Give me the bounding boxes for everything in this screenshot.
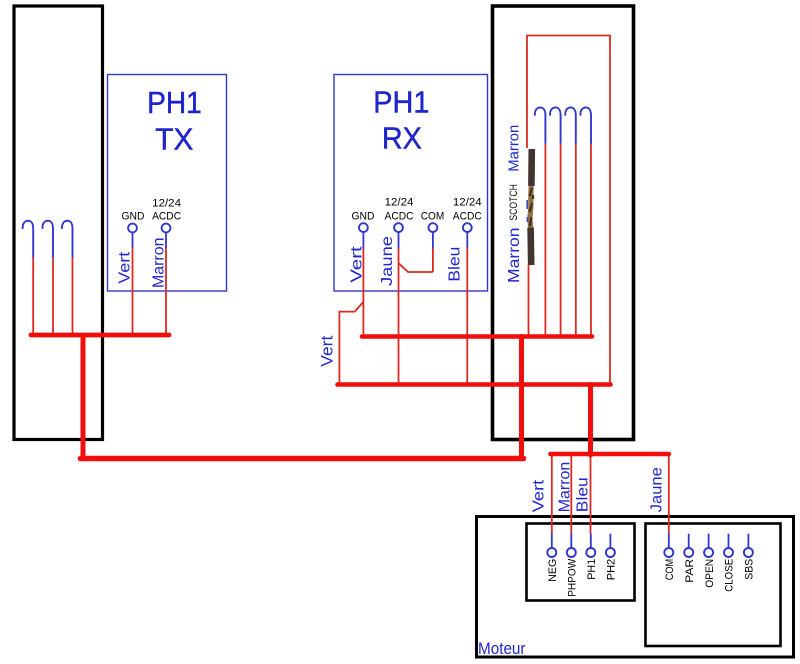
svg-text:Vert: Vert xyxy=(349,245,366,282)
wire Vert branch from RX GND xyxy=(339,302,363,383)
terminal circle RX GND xyxy=(359,223,368,232)
svg-text:OPEN: OPEN xyxy=(704,559,716,588)
wire Marron below scotch to bus B xyxy=(528,265,530,335)
svg-text:Marron: Marron xyxy=(151,238,168,289)
svg-text:Vert: Vert xyxy=(531,479,548,512)
wire left hook 1 drop xyxy=(32,258,34,335)
svg-text:Vert: Vert xyxy=(116,251,133,284)
svg-text:PHPOW: PHPOW xyxy=(567,558,579,597)
svg-text:ACDC: ACDC xyxy=(385,211,414,223)
wire COM drop from bus E xyxy=(668,454,670,534)
pin stub PAR xyxy=(688,534,690,548)
box PH1 RX xyxy=(334,75,488,292)
terminal circle NEG xyxy=(547,548,556,557)
terminal circle COM xyxy=(664,548,673,557)
svg-text:Jaune: Jaune xyxy=(648,467,665,512)
svg-text:PH1: PH1 xyxy=(373,85,429,120)
terminal circle SBS xyxy=(744,548,753,557)
bus bar B (right of RX, y=336.5) xyxy=(362,334,592,339)
svg-text:Moteur: Moteur xyxy=(478,640,526,658)
svg-text:PH1: PH1 xyxy=(147,85,202,120)
pin stub RX ACDC1 xyxy=(398,232,400,249)
pin stub CLOSE xyxy=(728,534,730,548)
scotch tape middle wrap xyxy=(530,186,531,228)
svg-text:SBS: SBS xyxy=(744,559,756,580)
wire RX GND drop to bus B xyxy=(362,248,364,335)
wire right hook 3 drop xyxy=(575,144,577,335)
svg-text:RX: RX xyxy=(382,121,422,156)
wire PHPOW drop from bus E xyxy=(570,456,572,534)
svg-text:PH2: PH2 xyxy=(606,559,618,581)
svg-text:Vert: Vert xyxy=(318,335,336,366)
svg-text:CLOSE: CLOSE xyxy=(724,559,736,592)
svg-text:Marron: Marron xyxy=(557,462,574,513)
terminal circle CLOSE xyxy=(724,548,733,557)
terminal circle OPEN xyxy=(704,548,713,557)
terminal circle PAR xyxy=(684,548,693,557)
bus bar C (y=384.5) xyxy=(338,382,611,387)
wire right hook 4 drop xyxy=(590,144,592,335)
motor enclosure box Moteur xyxy=(477,517,794,658)
pin stub OPEN xyxy=(708,534,710,548)
wire RX Jaune drop to bus C xyxy=(398,248,400,383)
pin stub PH1 xyxy=(590,534,592,548)
wire right hook 2 drop xyxy=(560,144,562,335)
pin stub COM xyxy=(668,534,670,548)
right enclosure box xyxy=(493,6,634,440)
svg-text:Marron: Marron xyxy=(506,227,523,283)
hook left 1 xyxy=(23,221,34,258)
hook left 2 xyxy=(42,221,53,258)
svg-text:12/24: 12/24 xyxy=(152,198,181,210)
hook right 1 xyxy=(535,107,546,143)
svg-text:Jaune: Jaune xyxy=(379,236,396,286)
pin stub NEG xyxy=(551,534,553,548)
terminal circle TX ACDC xyxy=(162,224,171,233)
scotch tape blue accent xyxy=(526,200,528,222)
svg-text:SCOTCH: SCOTCH xyxy=(508,184,520,221)
terminal circle TX GND xyxy=(128,224,137,233)
wire jog Jaune to COM xyxy=(399,263,433,272)
svg-text:PAR: PAR xyxy=(684,559,696,583)
svg-text:GND: GND xyxy=(352,211,375,223)
wire PH1 drop from bus E xyxy=(590,456,592,534)
terminal circle PH1 xyxy=(586,548,595,557)
svg-text:12/24: 12/24 xyxy=(453,197,482,209)
hook right 2 xyxy=(550,107,561,143)
wire RX Bleu drop to bus C xyxy=(466,248,468,383)
red loop rectangle in right enclosure xyxy=(527,36,610,384)
terminal circle RX ACDC1 xyxy=(394,223,403,232)
motor terminal block 2 xyxy=(646,524,781,647)
pin stub SBS xyxy=(747,534,749,548)
thick riser bar C to bar E (x=590.5) xyxy=(588,385,593,456)
svg-text:ACDC: ACDC xyxy=(152,211,181,223)
svg-text:COM: COM xyxy=(421,211,445,223)
wire left hook 3 drop xyxy=(72,258,74,335)
left enclosure box xyxy=(14,6,103,440)
wire NEG drop from bus E xyxy=(551,456,553,534)
terminal circle PHPOW xyxy=(567,548,576,557)
pin stub RX GND xyxy=(362,232,364,249)
pin stub TX GND xyxy=(132,233,134,249)
box PH1 TX xyxy=(108,75,227,292)
wire RX COM drop xyxy=(432,248,434,272)
svg-text:Bleu: Bleu xyxy=(575,477,592,512)
pin stub TX ACDC xyxy=(165,233,167,249)
bus bar E (y=455) xyxy=(551,452,669,457)
motor terminal block 1 xyxy=(527,524,635,601)
bus bar A (left, y=335) xyxy=(31,333,169,338)
svg-text:Marron: Marron xyxy=(506,125,522,172)
pin stub RX COM xyxy=(432,232,434,249)
terminal circle RX ACDC2 xyxy=(463,223,472,232)
bus bar D (y=458.5) xyxy=(81,456,524,462)
hook right 4 xyxy=(580,107,591,143)
svg-text:COM: COM xyxy=(664,559,676,581)
terminal circle PH2 xyxy=(606,548,615,557)
svg-text:PH1: PH1 xyxy=(586,559,598,580)
thick riser bar A to bar D (x=83) xyxy=(81,335,86,459)
svg-text:TX: TX xyxy=(155,122,193,157)
hook right 3 xyxy=(565,107,576,143)
scotch tape upper segment xyxy=(528,149,535,186)
svg-text:Bleu: Bleu xyxy=(447,247,464,282)
wire right hook 1 drop xyxy=(544,144,546,335)
terminal circle RX COM xyxy=(429,223,438,232)
pin stub PH2 xyxy=(609,534,611,548)
pin stub PHPOW xyxy=(570,534,572,548)
svg-text:NEG: NEG xyxy=(547,559,559,582)
wire TX ACDC drop xyxy=(165,248,167,335)
wire left hook 2 drop xyxy=(52,258,54,335)
pin stub RX ACDC2 xyxy=(466,232,468,249)
scotch tape middle dark flecks xyxy=(530,188,534,226)
svg-text:12/24: 12/24 xyxy=(385,197,414,209)
hook left 3 xyxy=(62,221,73,258)
svg-text:ACDC: ACDC xyxy=(453,211,482,223)
scotch tape lower segment xyxy=(527,228,534,266)
svg-text:GND: GND xyxy=(122,211,145,223)
wire TX GND drop xyxy=(132,248,134,335)
thick riser bar B to bar D (x=521.5) xyxy=(519,337,524,459)
